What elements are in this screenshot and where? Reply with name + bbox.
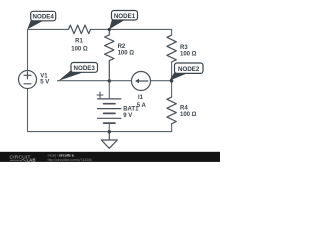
footer watermark bar xyxy=(0,152,220,163)
label I1 value xyxy=(137,95,147,109)
label V1 value xyxy=(40,74,49,86)
svg-text:100 Ω: 100 Ω xyxy=(180,112,197,118)
node NODE1 flag xyxy=(109,11,137,30)
svg-text:R3: R3 xyxy=(180,45,188,51)
svg-text:http://circuitlab.com/c/743345: http://circuitlab.com/c/743345 xyxy=(48,158,92,162)
resistor R3 xyxy=(167,35,176,62)
label BAT1 value xyxy=(123,106,139,119)
junction NODE2 dot xyxy=(170,79,173,82)
svg-text:NODE2: NODE2 xyxy=(178,66,200,73)
svg-text:NODE4: NODE4 xyxy=(33,14,55,21)
svg-text:100 Ω: 100 Ω xyxy=(180,51,197,57)
svg-text:I1: I1 xyxy=(138,95,144,101)
current source I1 xyxy=(132,72,151,91)
svg-text:R4: R4 xyxy=(180,105,188,111)
label R3 value xyxy=(180,45,197,57)
svg-text:NODE3: NODE3 xyxy=(74,65,96,72)
ground xyxy=(101,132,117,149)
node NODE3 flag xyxy=(58,63,97,81)
svg-text:R1: R1 xyxy=(75,38,83,44)
svg-text:100 Ω: 100 Ω xyxy=(118,50,135,56)
svg-text:9 V: 9 V xyxy=(123,113,132,119)
junction middle dot xyxy=(108,79,111,82)
wire top horizontal xyxy=(28,28,172,30)
resistor R4 xyxy=(167,97,176,124)
wire left vertical xyxy=(27,29,29,131)
label R1 value xyxy=(71,38,88,52)
label R4 value xyxy=(180,105,197,117)
battery BAT1 wires xyxy=(108,81,110,132)
junction NODE1 dot xyxy=(108,28,111,31)
voltage source V1 xyxy=(19,71,37,89)
node NODE4 flag xyxy=(27,11,55,29)
svg-text:5 V: 5 V xyxy=(40,80,49,86)
battery BAT1 xyxy=(97,92,121,123)
svg-text:100 Ω: 100 Ω xyxy=(71,46,88,52)
resistor R1 xyxy=(69,25,91,34)
label R2 value xyxy=(118,44,135,56)
svg-text:BAT1: BAT1 xyxy=(123,106,139,112)
svg-text:NODE1: NODE1 xyxy=(114,13,136,20)
wire middle horizontal xyxy=(58,80,172,82)
junction ground dot xyxy=(108,130,111,133)
wire right vertical xyxy=(171,29,173,131)
wire bottom horizontal xyxy=(28,131,172,133)
svg-text:LAB: LAB xyxy=(27,158,36,163)
svg-text:R2: R2 xyxy=(118,44,126,50)
resistor R2 xyxy=(105,29,114,80)
node NODE2 flag xyxy=(169,63,203,81)
